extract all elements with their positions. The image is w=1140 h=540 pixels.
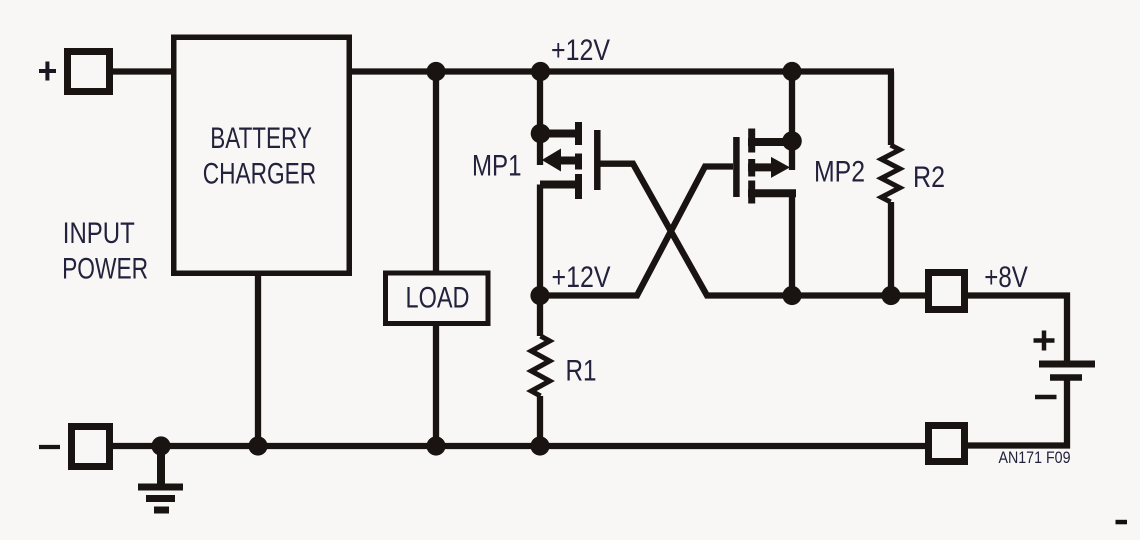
wire charger bottom to ground rail [255, 276, 261, 446]
svg-text:INPUT: INPUT [63, 217, 135, 250]
wire MP2 drain to node [789, 193, 795, 296]
node: MP2 source terminal [782, 131, 802, 151]
svg-text:+12V: +12V [552, 261, 611, 294]
wire bottom rail [113, 443, 925, 449]
node: ground rail / R1 [530, 436, 549, 455]
wire MP1 source branch [537, 72, 543, 166]
label + (battery plus) [1034, 331, 1055, 351]
node: MP2 drain [782, 286, 801, 305]
svg-text:+12V: +12V [551, 34, 610, 67]
terminal square output +8V [929, 273, 965, 310]
label - (battery minus) [1035, 395, 1057, 400]
wire MP2 gate cross-couple to MP1 drain node [540, 167, 733, 296]
svg-text:CHARGER: CHARGER [203, 158, 317, 191]
resistor R1 [531, 336, 549, 396]
node: top rail / LOAD [426, 62, 445, 81]
wire LOAD branch vertical [433, 72, 439, 447]
resistor R2 [881, 145, 899, 202]
ground symbol [138, 446, 183, 510]
node: MP1 source terminal [531, 124, 551, 144]
battery B1 plates [1039, 364, 1095, 378]
node: top rail / MP2 source [782, 62, 801, 81]
wire MP2 source branch [789, 72, 795, 171]
svg-text:R2: R2 [913, 161, 945, 194]
battery charger box U1 [174, 37, 350, 273]
transistor MP2 (P-channel MOSFET) [736, 129, 796, 204]
svg-text:R1: R1 [566, 354, 597, 387]
svg-text:MP1: MP1 [472, 149, 522, 182]
terminal square input - [72, 427, 110, 467]
wire MP1 drain to node [537, 185, 543, 297]
node: ground rail / ground symbol [151, 436, 170, 455]
svg-text:+8V: +8V [984, 261, 1028, 294]
label + (input plus) [39, 62, 56, 81]
wire MP1 gate cross-couple to MP2 drain node [600, 164, 925, 296]
transistor MP1 (P-channel MOSFET) [540, 122, 597, 199]
label - (input minus) [39, 445, 60, 449]
svg-text:AN171 F09: AN171 F09 [999, 449, 1071, 467]
svg-text:MP2: MP2 [814, 156, 865, 189]
svg-text:LOAD: LOAD [406, 282, 470, 315]
node: ground rail / charger [248, 436, 267, 455]
wire top rail [113, 68, 894, 74]
svg-text:BATTERY: BATTERY [210, 122, 311, 155]
node: R2 bottom [881, 286, 900, 305]
wire battery loop right [968, 296, 1067, 446]
wire R1 leads [537, 296, 543, 446]
node: +12V lower / MP1 drain [530, 286, 549, 305]
load box [386, 273, 489, 324]
terminal square input + [68, 52, 110, 92]
wire R2 branch from top rail [888, 72, 894, 297]
terminal square output return [929, 426, 965, 462]
node: ground rail / LOAD [426, 436, 445, 455]
node: top rail / MP1 source [531, 62, 550, 81]
svg-text:POWER: POWER [62, 252, 148, 285]
stray dash bottom right [1116, 520, 1128, 525]
